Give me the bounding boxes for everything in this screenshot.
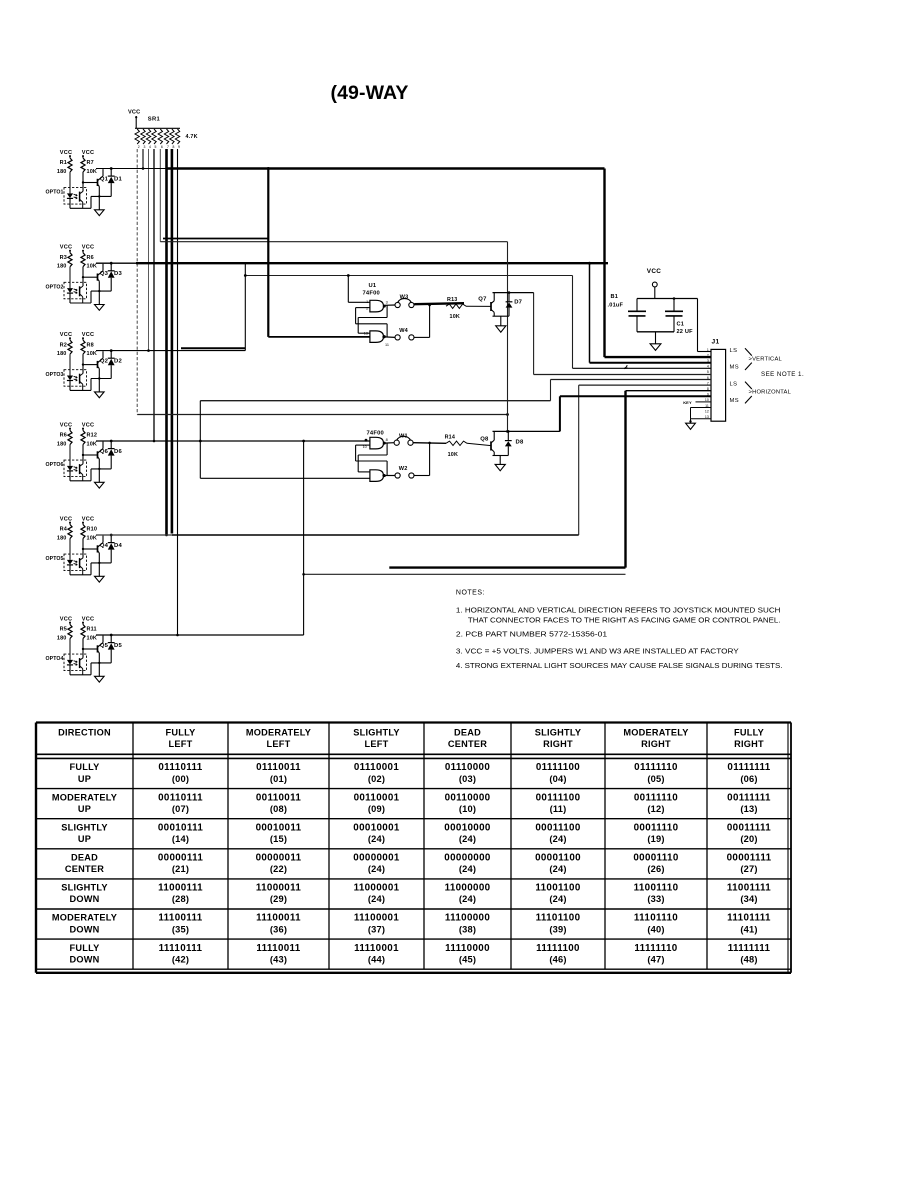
svg-text:11110011: 11110011	[256, 943, 300, 954]
svg-text:(42): (42)	[172, 954, 189, 964]
svg-text:(19): (19)	[647, 834, 664, 844]
svg-text:DOWN: DOWN	[69, 924, 99, 934]
wire J1 pin9 entry (thick)	[560, 395, 711, 397]
svg-text:VCC: VCC	[82, 516, 94, 522]
table header separator (double)	[36, 753, 791, 755]
svg-text:11100001: 11100001	[354, 913, 400, 924]
svg-text:Q7: Q7	[478, 296, 487, 302]
svg-text:00001110: 00001110	[633, 853, 679, 864]
svg-text:VCC: VCC	[82, 332, 94, 338]
svg-text:5: 5	[155, 145, 157, 149]
light arrows in OPTO1	[74, 194, 78, 195]
svg-text:Q4: Q4	[100, 543, 109, 549]
wire stub y238.5	[163, 238, 268, 240]
wire block3 output thick overlay	[181, 347, 245, 349]
svg-text:Q5: Q5	[100, 643, 109, 649]
svg-text:13: 13	[364, 332, 368, 336]
svg-text:00110011: 00110011	[256, 792, 302, 803]
VCC stubs for OPTO5	[69, 522, 71, 525]
wire latch cross-coupling U1 (pin2 to U1B out)	[355, 308, 357, 324]
svg-text:Q2: Q2	[100, 359, 109, 365]
wire cap top bar to J1 pin1	[697, 299, 699, 352]
wire W3/W4 junction vertical	[429, 305, 431, 337]
light arrows in OPTO5	[74, 561, 78, 562]
diode D2	[110, 349, 113, 352]
svg-text:(29): (29)	[270, 894, 287, 904]
wire SR1 pin9 vertical drop	[177, 149, 179, 635]
wire x303 vertical (W1 net down to block6 line)	[303, 441, 305, 635]
svg-text:LEFT: LEFT	[365, 739, 389, 749]
wire block2 output bus (thick)	[96, 262, 136, 264]
svg-text:R7: R7	[87, 160, 94, 166]
svg-text:B1: B1	[611, 294, 619, 300]
svg-text:00000001: 00000001	[353, 853, 400, 864]
wire Q7 emitter bar	[493, 315, 510, 317]
wire SR1 pin5 vertical drop	[153, 149, 155, 441]
svg-text:11000001: 11000001	[354, 883, 400, 894]
svg-text:(08): (08)	[270, 804, 287, 814]
capacitor B1 .01uF	[636, 299, 638, 312]
svg-text:Q6: Q6	[100, 449, 109, 455]
svg-text:(49-WAY: (49-WAY	[331, 82, 409, 104]
ground below Q8	[499, 456, 501, 465]
svg-text:DEAD: DEAD	[454, 727, 481, 737]
svg-text:10K: 10K	[87, 635, 98, 641]
connector J1 body	[711, 349, 726, 421]
svg-text:R6: R6	[87, 255, 94, 261]
wire Q8 collector bar extension	[493, 430, 560, 432]
svg-text:180: 180	[57, 441, 67, 447]
svg-text:D4: D4	[114, 543, 123, 549]
wire capacitor bottom bar	[637, 331, 674, 333]
svg-text:00000000: 00000000	[444, 853, 491, 864]
resistor R8 10K	[81, 340, 85, 354]
wire gate U2 lower input from x200	[200, 477, 370, 479]
wire x268 vertical thick (block1 net to gate U1 input)	[267, 169, 269, 337]
svg-text:R3: R3	[60, 255, 67, 261]
svg-text:OPTO2: OPTO2	[46, 284, 64, 290]
diode D1	[110, 167, 113, 170]
svg-text:(27): (27)	[740, 864, 757, 874]
transistor Q5	[97, 645, 99, 652]
svg-text:01110001: 01110001	[354, 762, 400, 773]
svg-text:(24): (24)	[549, 894, 566, 904]
svg-text:Q8: Q8	[480, 436, 489, 442]
svg-text:9: 9	[178, 145, 180, 149]
svg-text:00011111: 00011111	[727, 822, 771, 833]
wire R12 bottom to optocoupler collector	[82, 445, 84, 464]
J1 pins 11-13 ground bracket	[691, 407, 712, 409]
wire latch cross-coupling U2 (pin to U2B out)	[355, 445, 357, 461]
svg-text:(41): (41)	[740, 924, 757, 934]
svg-text:00110001: 00110001	[354, 792, 400, 803]
svg-text:00111111: 00111111	[727, 792, 771, 803]
phototransistor of OPTO4	[79, 658, 81, 668]
svg-text:11111100: 11111100	[536, 943, 580, 954]
svg-text:10K: 10K	[448, 452, 459, 458]
jumper W3 (installed)	[395, 302, 400, 307]
svg-text:OPTO3: OPTO3	[46, 372, 64, 378]
resistor R11 10K	[81, 625, 85, 639]
svg-text:10K: 10K	[87, 535, 98, 541]
capacitor C1 22 UF	[673, 299, 675, 312]
svg-text:SEE NOTE 1.: SEE NOTE 1.	[761, 371, 804, 378]
svg-text:R5: R5	[60, 627, 67, 633]
svg-text:(02): (02)	[368, 774, 385, 784]
svg-text:VCC: VCC	[647, 268, 661, 275]
resistor R13 10K	[446, 304, 466, 308]
svg-text:180: 180	[57, 635, 67, 641]
svg-text:VCC: VCC	[82, 150, 94, 156]
diode D8	[507, 431, 509, 440]
svg-text:R2: R2	[60, 342, 67, 348]
svg-text:10K: 10K	[87, 169, 98, 175]
svg-text:VCC: VCC	[60, 422, 72, 428]
wire R11 bottom to optocoupler collector	[82, 639, 84, 658]
svg-text:FULLY: FULLY	[69, 943, 99, 953]
svg-text:Q3: Q3	[100, 271, 109, 277]
wire SR1 pin8 vertical drop	[171, 149, 174, 534]
svg-text:CENTER: CENTER	[65, 864, 104, 874]
svg-text:(48): (48)	[740, 954, 757, 964]
light arrows in OPTO4	[74, 661, 78, 662]
svg-text:11100011: 11100011	[256, 913, 301, 924]
LED inside OPTO5	[69, 539, 71, 560]
wire J1 pin5 entry	[534, 374, 711, 376]
svg-text:(26): (26)	[647, 864, 664, 874]
VCC stubs for OPTO1	[69, 155, 71, 158]
wire Q7 collector bar	[493, 292, 534, 294]
svg-text:U1: U1	[369, 283, 377, 289]
svg-text:(33): (33)	[647, 894, 664, 904]
ground below Q5	[95, 676, 105, 682]
optocoupler OPTO2 dashed outline	[64, 282, 87, 299]
resistor R5 180	[68, 625, 72, 639]
svg-text:NOTES:: NOTES:	[456, 590, 485, 597]
resistor R1 180	[68, 158, 72, 172]
svg-text:DOWN: DOWN	[69, 954, 99, 964]
wire J1 pin3 entry	[590, 362, 712, 364]
transistor Q3	[97, 274, 99, 281]
wire D6 anode to emitter/opto emitter	[91, 468, 111, 470]
jumper W4 (open)	[385, 336, 395, 339]
svg-text:(21): (21)	[172, 864, 189, 874]
phototransistor of OPTO5	[79, 558, 81, 568]
svg-text:180: 180	[57, 535, 67, 541]
svg-text:W2: W2	[399, 466, 408, 472]
wire R13 to Q7 base	[466, 305, 491, 307]
wire U2A output to W1	[385, 442, 395, 444]
svg-text:1. HORIZONTAL AND VERTICAL DIR: 1. HORIZONTAL AND VERTICAL DIRECTION REF…	[456, 607, 781, 614]
op-amp U1B NAND gate	[370, 331, 384, 343]
svg-text:00010011: 00010011	[256, 822, 302, 833]
transistor Q8	[490, 441, 492, 450]
svg-text:VCC: VCC	[82, 245, 94, 251]
VCC stubs for OPTO6	[69, 428, 71, 431]
wire base node to transistor Q1	[83, 182, 98, 184]
svg-text:00110111: 00110111	[158, 792, 203, 803]
svg-text:11101111: 11101111	[727, 913, 771, 924]
svg-text:DEAD: DEAD	[71, 853, 98, 863]
svg-text:00010001: 00010001	[353, 822, 400, 833]
svg-text:D5: D5	[114, 643, 123, 649]
svg-text:(24): (24)	[549, 864, 566, 874]
svg-text:FULLY: FULLY	[69, 762, 99, 772]
svg-text:(24): (24)	[368, 864, 385, 874]
svg-text:01110111: 01110111	[158, 762, 202, 773]
wire x200 vertical	[199, 401, 201, 479]
svg-text:MS: MS	[730, 364, 740, 370]
svg-text:SLIGHTLY: SLIGHTLY	[535, 727, 582, 737]
light arrows in OPTO3	[74, 376, 78, 377]
svg-text:8: 8	[386, 438, 388, 442]
svg-text:01111111: 01111111	[727, 762, 770, 773]
wire J1 pin8 entry	[626, 390, 712, 392]
wire y574.3	[304, 573, 626, 575]
wire D4 anode to emitter/opto emitter	[91, 562, 111, 564]
svg-text:MODERATELY: MODERATELY	[52, 913, 117, 923]
wire x507 vertical	[507, 242, 509, 432]
svg-text:01110011: 01110011	[256, 762, 301, 773]
SR1 resistor elements 1-8	[135, 129, 139, 144]
svg-text:180: 180	[57, 169, 67, 175]
svg-text:OPTO5: OPTO5	[46, 556, 64, 562]
svg-text:D2: D2	[114, 359, 123, 365]
svg-text:(03): (03)	[459, 774, 476, 784]
wire x578 vertical (block5 to J1 pin7)	[578, 385, 580, 535]
svg-text:J1: J1	[712, 339, 720, 346]
svg-text:11111110: 11111110	[634, 943, 677, 954]
svg-text:D6: D6	[114, 449, 123, 455]
svg-text:R11: R11	[87, 627, 97, 633]
svg-text:180: 180	[57, 264, 67, 270]
svg-text:(24): (24)	[459, 894, 476, 904]
wire y241.7 long to x507	[160, 241, 507, 243]
wire W1 to R14	[413, 442, 446, 445]
svg-text:11110111: 11110111	[159, 943, 203, 954]
svg-text:(14): (14)	[172, 834, 189, 844]
svg-text:00011110: 00011110	[634, 822, 679, 833]
svg-text:00011100: 00011100	[535, 822, 581, 833]
svg-text:00111100: 00111100	[536, 792, 581, 803]
svg-text:UP: UP	[78, 834, 91, 844]
svg-text:7: 7	[167, 145, 169, 149]
diode D3	[110, 262, 113, 265]
VCC stubs for OPTO2	[69, 250, 71, 253]
wire W3 to R13 (dark)	[414, 303, 464, 304]
svg-text:C1: C1	[677, 322, 685, 328]
resistor R6 180	[68, 431, 72, 445]
svg-text:00001100: 00001100	[535, 853, 581, 864]
svg-text:(06): (06)	[740, 774, 757, 784]
svg-text:(35): (35)	[172, 924, 189, 934]
svg-text:FULLY: FULLY	[165, 727, 195, 737]
jumper W1 (installed)	[394, 440, 399, 445]
wire Q8 emitter bar	[493, 455, 509, 457]
svg-text:(24): (24)	[368, 834, 385, 844]
wire y275.5 to x572	[245, 275, 572, 277]
svg-text:MS: MS	[730, 398, 740, 404]
svg-text:4. STRONG EXTERNAL LIGHT SOURC: 4. STRONG EXTERNAL LIGHT SOURCES MAY CAU…	[456, 663, 783, 670]
svg-text:SLIGHTLY: SLIGHTLY	[61, 883, 108, 893]
svg-text:UP: UP	[78, 804, 91, 814]
LED inside OPTO2	[69, 267, 71, 288]
light arrows in OPTO2	[74, 289, 78, 290]
svg-text:(46): (46)	[549, 954, 566, 964]
svg-text:SLIGHTLY: SLIGHTLY	[61, 822, 108, 832]
LED inside OPTO6	[69, 445, 71, 466]
svg-text:(38): (38)	[459, 924, 476, 934]
svg-text:5: 5	[707, 370, 709, 374]
resistor R2 180	[68, 340, 72, 354]
phototransistor of OPTO1	[79, 192, 81, 202]
wire J1 pin4 entry	[573, 367, 712, 369]
optocoupler OPTO1 dashed outline	[64, 188, 87, 205]
svg-text:VCC: VCC	[60, 245, 72, 251]
wire D1 anode to emitter/opto emitter	[91, 195, 111, 197]
svg-text:11000011: 11000011	[256, 883, 302, 894]
bus slash mark on pin3 line	[624, 365, 628, 368]
ground below Q3	[95, 305, 105, 311]
phototransistor of OPTO3	[79, 374, 81, 384]
wire J1 pin7 entry	[579, 384, 711, 386]
svg-text:R6: R6	[60, 433, 67, 439]
svg-text:01110000: 01110000	[445, 762, 491, 773]
optocoupler OPTO6 dashed outline	[64, 460, 87, 477]
diode D7	[508, 293, 510, 302]
svg-text:10K: 10K	[87, 441, 98, 447]
svg-text:3: 3	[144, 145, 146, 149]
svg-text:2: 2	[366, 306, 368, 310]
svg-text:(40): (40)	[647, 924, 664, 934]
LED inside OPTO3	[69, 354, 71, 375]
svg-text:10K: 10K	[87, 264, 98, 270]
svg-text:MODERATELY: MODERATELY	[623, 727, 688, 737]
svg-text:(45): (45)	[459, 954, 476, 964]
svg-text:6: 6	[161, 145, 163, 149]
svg-text:00010111: 00010111	[158, 822, 204, 833]
wire block1 output (thin part)	[96, 168, 167, 170]
ground below Q2	[95, 392, 105, 398]
svg-text:W4: W4	[399, 328, 408, 334]
svg-text:SLIGHTLY: SLIGHTLY	[353, 727, 400, 737]
wire block5 output	[96, 534, 172, 536]
svg-text:LEFT: LEFT	[169, 739, 193, 749]
svg-text:VCC: VCC	[60, 332, 72, 338]
wire block1 output bus to x604 (thick)	[167, 167, 605, 169]
svg-text:11001100: 11001100	[535, 883, 581, 894]
svg-text:00000111: 00000111	[158, 853, 204, 864]
op-amp U1A NAND gate	[370, 300, 384, 312]
svg-text:8: 8	[172, 145, 174, 149]
svg-text:W1: W1	[399, 434, 408, 440]
svg-text:OPTO6: OPTO6	[46, 462, 64, 468]
wire x550 vertical (y400 line up to J1 pin6)	[550, 380, 552, 401]
svg-text:11111111: 11111111	[728, 943, 771, 954]
wire into U1A pin1 from y275 branch	[347, 276, 349, 303]
wire x533 vertical (Q7 collector to J1 pin5)	[533, 293, 535, 375]
svg-text:(22): (22)	[270, 864, 287, 874]
svg-text:VCC: VCC	[60, 150, 72, 156]
op-amp U2B NAND gate	[370, 470, 384, 482]
svg-text:D1: D1	[114, 177, 123, 183]
wire x572 vertical (to J1 pin4)	[572, 276, 574, 369]
svg-text:RIGHT: RIGHT	[641, 739, 671, 749]
transistor Q6	[97, 451, 99, 458]
wire base node to transistor Q3	[83, 276, 98, 278]
svg-text:R10: R10	[87, 527, 98, 533]
wire x604 vertical (block1 to J1 pin2)	[603, 169, 605, 358]
phototransistor of OPTO2	[79, 286, 81, 296]
svg-text:(43): (43)	[270, 954, 287, 964]
svg-text:.01uF: .01uF	[608, 302, 624, 308]
phototransistor of OPTO6	[79, 464, 81, 474]
svg-text:11000111: 11000111	[158, 883, 203, 894]
svg-text:(00): (00)	[172, 774, 189, 784]
svg-text:(47): (47)	[647, 954, 664, 964]
svg-text:MODERATELY: MODERATELY	[52, 792, 117, 802]
wire J1 pin2 entry (thick)	[605, 356, 712, 358]
svg-text:(04): (04)	[549, 774, 566, 784]
wire R6 bottom to optocoupler collector	[82, 267, 84, 286]
svg-text:UP: UP	[78, 774, 91, 784]
wire block6 output	[96, 634, 304, 636]
jumper W2 (open)	[385, 475, 395, 477]
svg-text:VCC: VCC	[60, 616, 72, 622]
LED inside OPTO4	[69, 639, 71, 660]
wire R8 bottom to optocoupler collector	[82, 354, 84, 373]
wire x245 vertical	[244, 263, 246, 350]
wire block4 output to gate U2 input	[96, 440, 370, 442]
wire SR1 pin3 vertical drop	[142, 149, 144, 169]
VCC stubs for OPTO3	[69, 337, 71, 340]
svg-text:LS: LS	[730, 382, 738, 388]
svg-text:(34): (34)	[740, 894, 757, 904]
svg-text:10K: 10K	[450, 314, 461, 320]
svg-text:(15): (15)	[270, 834, 287, 844]
wire latch cross-coupling U2 (U2A out down to U2B input)	[386, 443, 388, 455]
wire W2 right to junction	[414, 475, 429, 477]
transistor Q7	[490, 302, 492, 311]
ground below Q4	[95, 576, 105, 582]
svg-text:22 UF: 22 UF	[677, 329, 694, 335]
wire U1A pin2 stub	[356, 307, 370, 309]
svg-text:74F00: 74F00	[363, 291, 380, 297]
wire latch cross-coupling U1 (U1A out down to U1B input)	[386, 305, 388, 317]
resistor R12 10K	[81, 431, 85, 445]
svg-text:(24): (24)	[459, 864, 476, 874]
wire capacitor top bar	[637, 298, 698, 300]
wire y400.7	[200, 400, 550, 402]
resistor R14 10K	[446, 441, 467, 445]
wire W4 right to junction	[414, 336, 429, 338]
resistor R10 10K	[81, 525, 85, 539]
svg-text:D3: D3	[114, 271, 123, 277]
svg-text:(39): (39)	[549, 924, 566, 934]
svg-text:(28): (28)	[172, 894, 189, 904]
svg-text:R8: R8	[87, 342, 94, 348]
wire x268 to gate U1B lower input	[268, 336, 370, 338]
svg-text:OPTO1: OPTO1	[46, 190, 64, 196]
svg-text:DIRECTION: DIRECTION	[58, 727, 111, 737]
table column separators	[132, 723, 134, 970]
svg-text:(13): (13)	[740, 804, 757, 814]
svg-text:10K: 10K	[87, 351, 98, 357]
optocoupler OPTO4 dashed outline	[64, 654, 87, 671]
wire base node to transistor Q6	[83, 454, 98, 456]
svg-text:(07): (07)	[172, 804, 189, 814]
wire y567.6 thick	[389, 566, 625, 568]
